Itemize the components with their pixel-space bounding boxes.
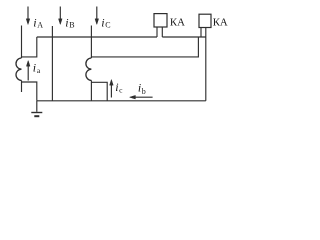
svg-text:КА: КА [213, 16, 228, 28]
wire return bus [37, 100, 206, 102]
relay KA2 right lead down to return bus [205, 28, 207, 101]
coil TA1 (CT on phase A) [16, 58, 22, 80]
label ic [115, 80, 123, 95]
svg-text:КА: КА [170, 16, 185, 28]
phase line C [90, 26, 92, 59]
wire H1 secondary bus (left segment, ends at KA1 left lead) [37, 36, 157, 38]
wire H3 from CT-C top to riser at relay KA2 [91, 37, 198, 57]
arrow iA [26, 7, 30, 25]
ground [31, 101, 42, 116]
wire CT-A top tap to H1 riser [22, 37, 37, 57]
svg-text:C: C [105, 20, 110, 29]
svg-text:i: i [33, 60, 36, 74]
arrow ia (up, beside CT-A) [26, 61, 30, 81]
svg-text:a: a [37, 66, 41, 75]
coil TA2 (CT on phase C) [86, 58, 92, 80]
svg-text:B: B [69, 20, 74, 29]
relay KA2 box [199, 14, 211, 27]
phase line C lower segment to bus [90, 80, 92, 100]
wire H1 secondary bus (right segment, from KA1 right lead to KA2 lead) [162, 36, 206, 38]
arrow iC [95, 7, 99, 25]
wire CT-A bottom tap down to return bus [22, 82, 37, 101]
svg-text:i: i [101, 15, 104, 29]
svg-text:b: b [142, 87, 146, 96]
relay KA1 box [154, 14, 167, 27]
label ib [138, 80, 146, 96]
wire CT-C bottom tap and stub to bus [91, 82, 107, 101]
arrow ic (up, beside stub) [110, 80, 114, 98]
arrow ib (left, above return bus) [130, 95, 153, 99]
label iB [65, 15, 74, 29]
arrow iB [59, 7, 63, 25]
label iC [101, 15, 110, 29]
relay KA2 left lead [200, 28, 202, 38]
svg-text:c: c [119, 85, 123, 94]
svg-text:i: i [33, 15, 36, 29]
label ia [33, 60, 41, 75]
svg-text:A: A [37, 20, 43, 29]
phase line A [21, 26, 23, 59]
svg-text:i: i [65, 15, 68, 29]
label iA [33, 15, 43, 29]
phase line B [51, 26, 53, 101]
phase line A lower stub [21, 80, 23, 92]
relay KA1 leads [157, 27, 162, 37]
